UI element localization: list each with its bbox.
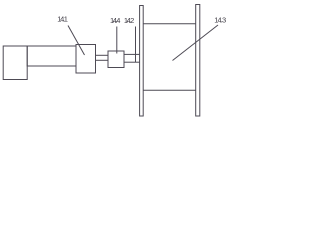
- svg-text:14.1: 14.1: [57, 15, 68, 24]
- svg-text:14.2: 14.2: [124, 16, 135, 25]
- svg-text:14.3: 14.3: [214, 15, 226, 24]
- svg-text:14.4: 14.4: [110, 16, 121, 25]
